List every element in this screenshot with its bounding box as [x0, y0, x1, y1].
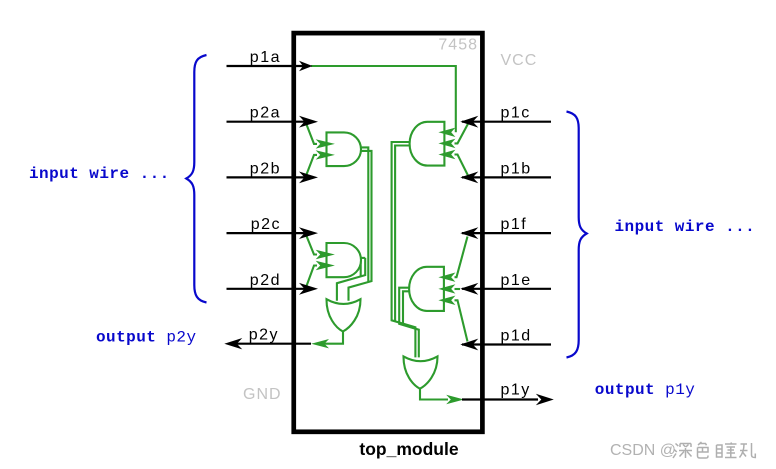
- svg-text:p2y: p2y: [249, 327, 279, 344]
- svg-text:input wire ...: input wire ...: [615, 218, 756, 236]
- svg-text:7458: 7458: [438, 37, 478, 54]
- svg-text:output p2y: output p2y: [96, 328, 197, 346]
- svg-text:CSDN @: CSDN @: [610, 442, 676, 459]
- svg-text:input wire ...: input wire ...: [29, 165, 170, 183]
- svg-text:p2d: p2d: [250, 272, 281, 289]
- svg-text:p1y: p1y: [501, 381, 531, 398]
- svg-text:output p1y: output p1y: [595, 381, 696, 399]
- svg-text:p1b: p1b: [501, 160, 532, 177]
- svg-text:top_module: top_module: [359, 439, 458, 459]
- svg-text:p1c: p1c: [501, 105, 531, 122]
- svg-text:VCC: VCC: [501, 52, 538, 69]
- svg-text:p2a: p2a: [250, 105, 281, 122]
- svg-text:GND: GND: [243, 386, 282, 403]
- svg-text:p1e: p1e: [501, 272, 532, 289]
- svg-text:p1a: p1a: [250, 49, 281, 66]
- svg-text:p1d: p1d: [501, 328, 532, 345]
- svg-text:p1f: p1f: [501, 216, 528, 233]
- svg-text:p2c: p2c: [251, 216, 281, 233]
- svg-text:p2b: p2b: [250, 160, 281, 177]
